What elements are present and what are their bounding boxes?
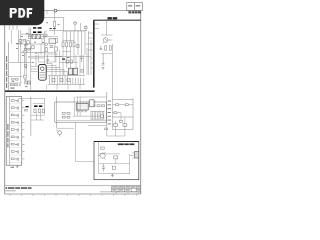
wire bus y58	[31, 57, 44, 59]
label C808 (bold)	[38, 27, 42, 29]
ground (HF block)	[102, 67, 105, 69]
resistor R123	[69, 42, 71, 47]
Q201 collector wire	[108, 39, 113, 41]
feedback bus wire y116	[73, 115, 103, 117]
bridge rectifier BR1	[32, 34, 40, 38]
sheet border frame	[5, 11, 141, 195]
resistor R105	[24, 48, 27, 50]
value label R103	[20, 42, 23, 45]
ground (remote block)	[111, 174, 114, 177]
filter cap C801	[42, 109, 44, 113]
sheet note text (bottom left)	[6, 187, 32, 189]
feedback comb rails	[90, 110, 104, 112]
resistor R813	[62, 116, 65, 118]
transformer pin ticks	[50, 76, 84, 85]
primary ground bus wire	[9, 61, 31, 63]
vref IC102	[55, 39, 58, 43]
diode D105	[24, 76, 27, 79]
below-table wire drop	[106, 125, 108, 136]
label D801 (bold)	[25, 106, 28, 107]
wire mid bus	[31, 55, 62, 57]
wire drop x80.5	[80, 23, 82, 31]
wire stub from top border	[46, 11, 48, 15]
HF block feed wire	[106, 20, 108, 35]
rectifier cell D106	[25, 81, 28, 84]
pin row resistor R143	[67, 79, 70, 82]
label L101 (bold)	[50, 27, 52, 30]
wire drop neutral	[63, 18, 65, 31]
capacitor C121	[73, 42, 75, 47]
output net labels column	[108, 101, 111, 125]
sense drop x77.4	[76, 97, 78, 116]
wire snubber top bus	[63, 30, 85, 32]
HF output drop wire	[112, 44, 114, 98]
table wires	[113, 105, 134, 136]
gate resistor R128	[81, 70, 83, 73]
cap C104	[32, 46, 34, 49]
resistor R821	[92, 105, 95, 107]
startup resistor R110	[45, 48, 47, 52]
snubber rung y40.3	[63, 39, 74, 41]
drain bus wire y56.7	[55, 56, 91, 58]
IC801 pin ticks	[77, 101, 87, 112]
wire upper mid bus	[43, 31, 45, 66]
rectifier cell D107	[28, 81, 31, 84]
resistor R201	[105, 46, 107, 50]
wire drop x86	[85, 25, 87, 31]
strip cell cap CS3	[17, 114, 18, 117]
resistor R902	[114, 156, 118, 159]
switching MOSFET Q101 with heatsink	[68, 68, 77, 75]
filter cluster resistor R104	[23, 40, 26, 42]
snubber cap C126	[46, 55, 49, 64]
driver value label	[67, 56, 70, 59]
feedback resistor R127	[77, 45, 79, 48]
below-table junction wire	[107, 135, 125, 137]
thick-line side ticks	[85, 33, 93, 68]
resistor R814	[67, 116, 70, 118]
secondary right rule wire	[76, 96, 107, 98]
pin row drops to ground bus	[47, 84, 81, 89]
remote block title	[118, 143, 135, 145]
PFC block label text (rotated)	[6, 56, 7, 88]
snubber chain wires	[63, 31, 74, 75]
sub-board bottom bus wire	[57, 120, 107, 122]
resistor R107	[28, 48, 31, 50]
resistor R303	[114, 112, 117, 114]
standby bottom wire	[57, 127, 74, 129]
source bus wire y62.3	[59, 61, 78, 63]
remote feed vertical wire	[75, 122, 77, 162]
CN902 pin wires	[132, 153, 135, 158]
shunt regulator IC802	[90, 100, 95, 107]
title strip top rule	[5, 185, 141, 187]
resistor R106	[23, 51, 27, 53]
capacitor C201	[100, 46, 103, 50]
riser wire x76	[75, 55, 77, 68]
wire drop R902	[115, 159, 117, 164]
HF block top bus wire	[101, 34, 113, 36]
label C101 (bold)	[53, 27, 56, 30]
HF block lower bus wire	[101, 53, 113, 55]
label R808 (bold)	[38, 31, 42, 33]
electrolytic cap C110	[50, 46, 54, 47]
strip cell resistor RS7	[11, 143, 14, 145]
resistor R301	[116, 104, 119, 106]
wire bridge input	[29, 36, 32, 38]
ground (strip bottom)	[16, 165, 19, 168]
PFC block label strip	[7, 42, 9, 91]
wire AC bus horizontal	[49, 30, 87, 32]
value label left	[16, 42, 18, 45]
sense drop x74.2	[73, 97, 75, 116]
driver resistor R126	[70, 60, 72, 63]
strip cell resistor RS2	[11, 107, 14, 109]
standby vertical wire	[56, 97, 58, 129]
wire ic top	[45, 36, 59, 38]
rectifier D802	[34, 109, 36, 113]
resistor R306	[123, 124, 127, 126]
block divider: HF block top rule	[94, 19, 141, 21]
indicator LED D102	[46, 34, 48, 36]
corner cluster resistor R132	[14, 84, 17, 86]
block divider: primary/secondary isolation (vertical thick)	[93, 20, 95, 87]
standby regulator Q802	[58, 131, 62, 135]
pin row resistor R142	[60, 79, 63, 82]
ground (D105)	[24, 78, 27, 81]
remote connector CN902	[135, 151, 139, 158]
AC neutral rail wire	[44, 17, 64, 19]
resistor R111	[55, 47, 58, 51]
title block lower dividers	[116, 192, 138, 194]
secondary cluster top wire	[33, 103, 44, 105]
ground bus wire y76.5	[8, 76, 22, 78]
strip cell resistor RS1	[11, 100, 14, 102]
cap C113	[74, 22, 77, 24]
transformer pin ladder wires	[46, 64, 67, 76]
PDF badge label (vector glyphs)	[10, 8, 33, 18]
strip cell cap CS1	[17, 99, 18, 102]
below-table resistor R308	[105, 128, 108, 130]
transformer pin row rails	[48, 75, 85, 77]
resistor R121	[62, 42, 64, 47]
wire stub x11.5	[11, 30, 13, 44]
corner value label	[10, 87, 14, 90]
resistor R202	[109, 46, 111, 50]
gate wire x91	[90, 40, 92, 75]
regulator transistor Q201	[103, 38, 108, 43]
resistor R812	[67, 112, 70, 114]
wire bus y52.5	[21, 52, 45, 54]
wires emerging below badge	[9, 25, 29, 36]
bridge inter-wires	[29, 33, 42, 44]
strip cell value labels	[15, 100, 17, 159]
Q802 leads	[56, 130, 59, 137]
drawing number 17PW20.1 (top right)	[128, 11, 140, 13]
PFC module outline	[39, 53, 57, 63]
cap C108	[24, 65, 27, 67]
riser wire x80	[79, 55, 81, 75]
label D802 (bold)	[34, 105, 37, 107]
strip cell cap CS5	[17, 129, 18, 132]
remote feed horizontal wire	[76, 161, 95, 163]
resistor R901	[101, 147, 104, 149]
strip cell cap CS6	[17, 136, 18, 139]
strip cell resistor RS6	[11, 136, 14, 138]
primary left rail wire	[30, 28, 32, 91]
snubber rung y51.5	[63, 51, 70, 53]
rectifier D803	[38, 109, 40, 113]
filter cap C105	[24, 42, 27, 50]
IC802 side pin ticks	[88, 101, 96, 105]
PWM control IC101	[49, 39, 56, 44]
riser wire x59.5	[59, 50, 61, 68]
secondary feed vertical wire	[44, 99, 46, 116]
remote vertical wire	[98, 142, 100, 174]
bottom trim ruler ticks	[10, 194, 137, 196]
value label R133	[12, 80, 14, 83]
wire input left drop	[20, 30, 22, 83]
wire ic drop	[45, 30, 47, 38]
strip cell cap CS8	[17, 150, 18, 153]
wire drop right	[129, 154, 131, 174]
remote bottom wire	[99, 173, 130, 175]
strip cell cap CS4	[17, 121, 18, 124]
label D803 (bold)	[39, 105, 42, 107]
remote block outline	[94, 142, 139, 180]
wire bridge output	[40, 36, 47, 38]
Q201 emitter lead	[103, 39, 107, 44]
wire riser x36	[35, 55, 37, 66]
main connector strip outline CN801	[6, 97, 22, 166]
CN902 feed wire	[130, 155, 132, 157]
AC line fuse F1	[54, 9, 57, 12]
HF line stubs	[95, 24, 99, 29]
filter cluster resistor R103	[19, 40, 22, 42]
value label D106	[25, 85, 28, 88]
strip cell separators	[9, 104, 21, 162]
driver cluster label (bold)	[62, 59, 65, 60]
wire bus y34	[21, 33, 45, 35]
resistor R305	[114, 124, 118, 126]
corner cluster cap C131	[19, 84, 20, 86]
riser wire x83.5	[83, 55, 85, 75]
wire drop x75	[74, 21, 76, 32]
secondary main vertical wire	[30, 97, 32, 136]
cap C114	[84, 26, 87, 28]
wire drops to switcher	[78, 31, 85, 55]
output list table	[113, 98, 134, 129]
rectifier diode D801	[25, 109, 28, 111]
transformer primary rung wires	[31, 67, 39, 72]
strip cell resistor RS4	[11, 121, 14, 123]
connector strip label text (rotated)	[7, 124, 8, 147]
strip cell resistor RS5	[11, 129, 14, 131]
resistor R133	[12, 79, 15, 81]
strip cell resistor RS9	[11, 158, 14, 160]
connector strip label divider	[8, 97, 10, 166]
wire filter mid drop	[24, 44, 26, 62]
riser wire x55	[54, 44, 56, 62]
sense drop x80.1	[79, 97, 81, 116]
optocoupler IC103	[45, 43, 48, 46]
resistor R811	[62, 112, 65, 114]
resistor R101 (inrush)	[54, 21, 56, 27]
sense wire pair	[25, 53, 27, 76]
secondary right vertical wire	[106, 92, 108, 125]
remote top wire	[99, 153, 120, 155]
resistor R304	[119, 120, 122, 122]
HF 100 block label	[108, 17, 118, 19]
corner cluster resistor R131	[10, 84, 13, 86]
wire below R101	[54, 27, 56, 35]
switch transistor Q901	[100, 153, 105, 158]
revision table (top right, above border)	[127, 3, 143, 11]
resistor R302	[125, 104, 128, 106]
wire riser x41	[40, 44, 42, 55]
block divider: primary block bottom (horizontal thick)	[5, 90, 95, 92]
wire bus y44	[16, 43, 44, 45]
capacitor C902	[112, 166, 115, 169]
resistor R825	[101, 115, 104, 118]
corner wire	[9, 82, 22, 84]
driver resistor R125	[66, 60, 68, 63]
wire drop from fuse	[54, 12, 56, 21]
label R807 (bold)	[33, 31, 36, 33]
capacitor C202	[102, 54, 105, 65]
page background	[0, 0, 149, 198]
secondary section top rule wire	[18, 98, 45, 100]
wire ic bottom	[45, 53, 59, 55]
strip cell resistor RS3	[11, 114, 14, 116]
resistor R822	[97, 105, 100, 107]
thermistor TH1	[29, 35, 32, 38]
remote mid wire	[99, 163, 130, 165]
connector ref label CN801	[11, 166, 14, 169]
error amp IC801	[76, 103, 88, 110]
secondary cluster bottom wire	[31, 114, 45, 116]
strip cell cap CS7	[17, 143, 18, 146]
filter cluster cap C103	[27, 41, 29, 44]
regulation sub-board outline	[55, 102, 107, 122]
feedback comb ticks	[91, 111, 104, 119]
resistor R823	[101, 105, 104, 107]
strip cell cap CS9	[17, 158, 18, 161]
main transformer T101	[39, 65, 47, 81]
Q901 leads	[99, 152, 106, 160]
value labels cluster	[16, 23, 60, 69]
connector pin stubs	[22, 101, 25, 159]
title block table (bottom right)	[100, 186, 141, 192]
rectifier tail wires	[31, 113, 44, 120]
strip cell cap CS2	[17, 107, 18, 110]
capacitor C901	[102, 164, 105, 172]
wire input left drop 2	[18, 30, 20, 62]
label C807 (bold)	[33, 27, 36, 29]
secondary bottom rule wire	[88, 124, 107, 126]
resistor R122	[66, 42, 68, 47]
pin row resistor R141	[52, 79, 55, 82]
strip cell resistor RS8	[11, 151, 14, 153]
varistor RV1	[41, 34, 44, 38]
riser wire x87	[86, 48, 88, 75]
capacitor C124	[80, 55, 83, 62]
resistor R134	[16, 79, 19, 81]
gate wire x88.5	[88, 31, 90, 75]
PDF badge	[0, 0, 44, 25]
